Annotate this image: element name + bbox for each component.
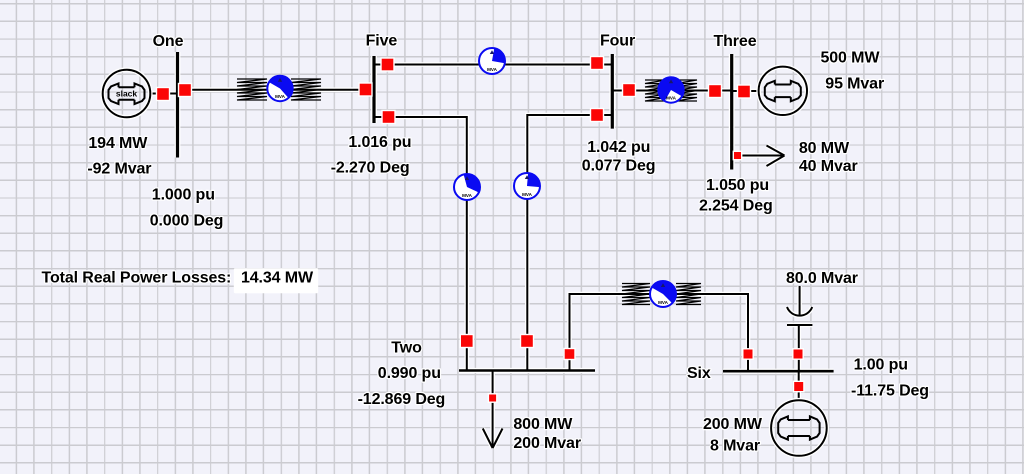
svg-text:MVA: MVA [275,94,286,99]
svg-text:0.077 Deg: 0.077 Deg [582,157,656,174]
svg-text:1.00 pu: 1.00 pu [854,357,908,374]
svg-text:-12.869 Deg: -12.869 Deg [358,391,446,408]
svg-text:0.000 Deg: 0.000 Deg [150,212,224,229]
svg-text:0.990 pu: 0.990 pu [378,365,441,382]
svg-text:MVA: MVA [487,67,498,72]
svg-text:Five: Five [366,33,398,50]
svg-text:-11.75 Deg: -11.75 Deg [851,382,929,399]
svg-text:200 Mvar: 200 Mvar [513,435,581,452]
svg-text:Three: Three [714,33,757,50]
svg-text:800 MW: 800 MW [513,416,573,433]
svg-text:1.000 pu: 1.000 pu [152,186,215,203]
svg-text:2.254 Deg: 2.254 Deg [699,197,773,214]
svg-text:MVA: MVA [666,96,677,101]
svg-text:95 Mvar: 95 Mvar [825,75,884,92]
svg-text:-2.270 Deg: -2.270 Deg [331,160,410,177]
svg-text:1.042 pu: 1.042 pu [587,139,650,156]
svg-text:80.0 Mvar: 80.0 Mvar [786,270,858,287]
svg-text:500 MW: 500 MW [821,49,881,66]
svg-text:194 MW: 194 MW [88,135,148,152]
svg-text:1.050 pu: 1.050 pu [706,177,769,194]
svg-text:Four: Four [600,33,635,50]
svg-text:200 MW: 200 MW [703,416,763,433]
svg-text:Total Real Power Losses:: Total Real Power Losses: [42,270,232,287]
svg-text:Two: Two [391,339,422,356]
svg-text:slack: slack [116,89,138,99]
svg-text:40 Mvar: 40 Mvar [799,158,858,175]
svg-text:80 MW: 80 MW [799,140,850,157]
svg-text:MVA: MVA [522,192,533,197]
svg-text:One: One [153,33,184,50]
svg-text:14.34 MW: 14.34 MW [241,270,314,287]
svg-text:MVA: MVA [658,300,669,305]
svg-text:MVA: MVA [462,193,473,198]
svg-text:Six: Six [687,365,711,382]
svg-text:8 Mvar: 8 Mvar [710,438,760,455]
svg-text:-92 Mvar: -92 Mvar [87,161,151,178]
svg-text:1.016 pu: 1.016 pu [348,134,411,151]
